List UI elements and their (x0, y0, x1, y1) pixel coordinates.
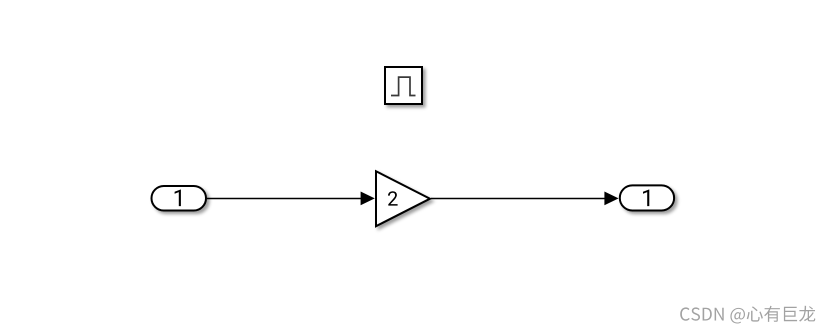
inport label 1 (175, 190, 181, 207)
arrowhead into outport (604, 192, 618, 206)
wire In1 to Gain (207, 198, 366, 200)
pulse generator icon (391, 77, 416, 95)
outport block Out1 (620, 185, 674, 210)
pulse generator block (385, 67, 422, 104)
watermark glyph xin (747, 306, 763, 321)
arrowhead into gain (361, 192, 375, 206)
watermark glyph at-sign (730, 308, 745, 324)
watermark glyph N (715, 308, 724, 321)
watermark glyph D (703, 308, 712, 321)
inport block In1 (152, 186, 207, 211)
gain value 2 (388, 191, 398, 205)
watermark CSDN @xinyoujulong (680, 306, 815, 324)
watermark glyph long (799, 306, 815, 322)
watermark glyph S (691, 307, 700, 320)
watermark glyph C (680, 307, 690, 320)
watermark glyph ju (784, 307, 797, 322)
wire Gain to Out1 (431, 198, 610, 200)
outport label 1 (643, 190, 649, 207)
watermark glyph you (764, 306, 780, 322)
gain block (376, 171, 430, 226)
